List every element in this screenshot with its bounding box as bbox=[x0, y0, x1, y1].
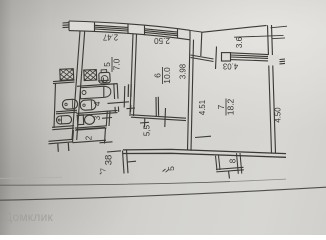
svg-text:2.50: 2.50 bbox=[154, 36, 170, 45]
toilet room3 walls bbox=[75, 126, 107, 128]
window glazing room 5 bbox=[95, 25, 129, 27]
svg-text:18.2: 18.2 bbox=[226, 98, 236, 115]
svg-text:7.0: 7.0 bbox=[112, 58, 122, 70]
window glazing room 6 bbox=[145, 29, 178, 32]
room8 tail tick bbox=[229, 171, 230, 179]
neighbour fixture 2 bbox=[56, 115, 71, 124]
bathroom room4 top wall bbox=[77, 84, 118, 87]
room6 door leaf (double) bbox=[155, 97, 157, 116]
svg-text:5,5: 5,5 bbox=[143, 124, 152, 136]
wall between room5 and room6 (double) bbox=[130, 34, 133, 116]
room5 label 5/7.0 bbox=[102, 57, 122, 72]
top exterior wall band bbox=[69, 21, 190, 40]
faint crease line bbox=[0, 177, 62, 178]
entrance door jambs (double) bbox=[123, 151, 125, 174]
toilet fixture bbox=[77, 115, 83, 125]
svg-text:4.50: 4.50 bbox=[274, 107, 283, 123]
watermark bbox=[4, 210, 53, 224]
balcony parapet front edge bbox=[202, 25, 267, 32]
neighbour vent shaft bbox=[60, 69, 74, 81]
svg-text:3.98: 3.98 bbox=[179, 64, 188, 79]
apt number tick bbox=[107, 151, 121, 152]
svg-text:2.47: 2.47 bbox=[103, 33, 118, 42]
room7 top wall left stub bbox=[191, 55, 214, 59]
bathtub bbox=[81, 86, 111, 99]
svg-text:3.6: 3.6 bbox=[235, 36, 244, 48]
bathroom door leaf bbox=[108, 102, 130, 104]
wall between room6 and room7 (double) bbox=[188, 40, 191, 151]
svg-text:7: 7 bbox=[216, 104, 226, 109]
room2 box bbox=[73, 130, 74, 143]
svg-text:7: 7 bbox=[101, 168, 108, 172]
wall stubs below bottom-left wall bbox=[57, 144, 60, 152]
balcony parapet left side bbox=[201, 32, 202, 56]
svg-text:8: 8 bbox=[229, 158, 238, 163]
entrance door leaf bbox=[128, 160, 137, 163]
apartment bottom wall right section (double) bbox=[123, 149, 286, 153]
bathroom right wall (double, door gap) bbox=[113, 84, 116, 99]
room8 box on landing bbox=[216, 153, 244, 174]
stairwell line 1 bbox=[0, 182, 230, 186]
door tick room6 bbox=[164, 108, 167, 127]
left end hatch of top wall bbox=[63, 22, 70, 24]
room6 label 6/10.0 bbox=[153, 67, 173, 84]
neighbour wall below fixtures (double) bbox=[52, 126, 74, 128]
balcony window band bbox=[231, 53, 269, 55]
svg-text:6: 6 bbox=[153, 73, 163, 78]
svg-text:38: 38 bbox=[104, 155, 115, 166]
svg-text:2: 2 bbox=[85, 135, 94, 140]
neighbour balcony stub bbox=[271, 26, 288, 28]
svg-text:5: 5 bbox=[102, 62, 112, 67]
washbasin in room4 bbox=[80, 100, 96, 111]
room6 bottom wall (double) bbox=[131, 115, 186, 118]
balcony window pier bbox=[222, 53, 231, 61]
pier edges (verticals in band) bbox=[68, 21, 70, 31]
kitchen sink bbox=[99, 72, 111, 83]
right exterior wall (double) bbox=[268, 25, 272, 153]
bathroom bottom wall (double) bbox=[77, 110, 118, 113]
room2 dim tick bbox=[100, 142, 113, 143]
svg-text:4: 4 bbox=[93, 101, 102, 106]
balcony door tick bbox=[216, 47, 217, 70]
neighbour fixture 1 bbox=[62, 99, 77, 109]
bottom-left exterior wall (double) bbox=[49, 139, 74, 141]
kitchen door leaf + tick bbox=[98, 79, 109, 82]
balcony inner parapet line bbox=[234, 35, 284, 37]
svg-text:4.03: 4.03 bbox=[223, 62, 238, 71]
svg-text:4.51: 4.51 bbox=[198, 100, 207, 115]
neighbour left wall line bbox=[54, 83, 56, 128]
kitchen vent shaft bbox=[84, 70, 97, 81]
kitchen door jamb (double) bbox=[127, 84, 129, 97]
room3 dim tick bbox=[102, 117, 112, 120]
neighbour wall (double) bbox=[56, 110, 77, 112]
left exterior wall (double) bbox=[72, 31, 80, 140]
svg-text:3: 3 bbox=[93, 115, 102, 120]
pier right of balcony window + hatch bbox=[268, 55, 279, 66]
corridor cross tick bbox=[127, 107, 136, 110]
stairwell line 2 bbox=[0, 187, 326, 200]
room7 label 7/18.2 bbox=[216, 98, 236, 115]
wall corner link to balcony bbox=[190, 30, 202, 32]
corridor cross mark bbox=[140, 121, 149, 124]
neighbour wall under vent (double) bbox=[53, 80, 75, 82]
room6/7 wall dim tick bbox=[195, 136, 211, 137]
svg-text:10.0: 10.0 bbox=[162, 67, 172, 84]
